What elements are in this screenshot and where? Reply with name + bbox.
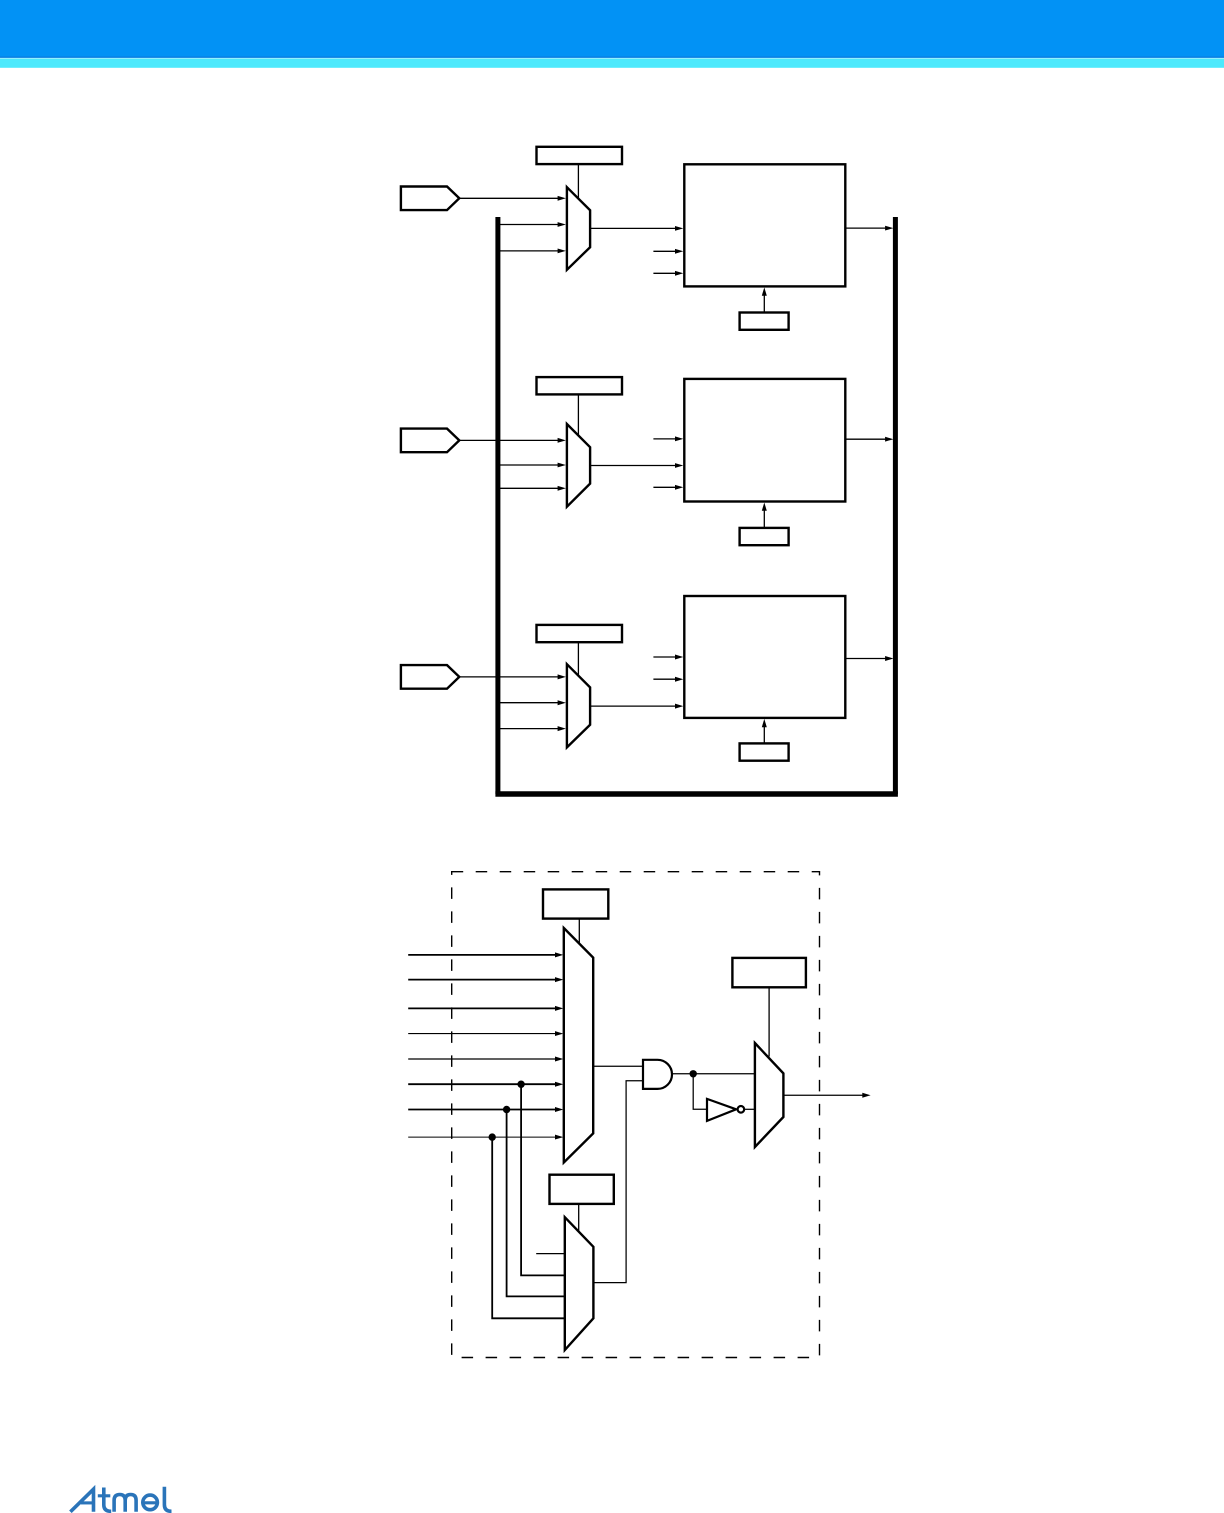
wire: register box R3 to mux M3 select xyxy=(577,642,579,676)
register box RC (above mux MC) xyxy=(732,958,806,987)
pin symbol P1 xyxy=(401,187,459,211)
control box C3 (below block B3) xyxy=(740,743,789,760)
wire: control input 2 into block B3 xyxy=(653,678,676,680)
wire: input line 8 into mux MA xyxy=(408,1136,557,1138)
data bus bottom horizontal bar xyxy=(495,791,898,796)
wire: pin P3 to mux M3 input xyxy=(459,676,559,678)
wire: block B2 output to data bus xyxy=(845,438,887,440)
wire: data bus to mux M2 input 3 xyxy=(498,487,560,489)
register box R1 (above mux M1) xyxy=(537,147,623,164)
mux M1 xyxy=(567,187,590,270)
wire: control box C3 up into block B3 xyxy=(763,725,765,743)
junction dot on AND output xyxy=(690,1070,697,1077)
wire: data bus to mux M3 input 2 xyxy=(498,702,560,704)
dashed boundary box of compare output unit xyxy=(452,872,820,1358)
control box C1 (below block B1) xyxy=(740,313,789,330)
wire: control box C2 up into block B2 xyxy=(763,509,765,528)
wire: control input 1 into block B2 xyxy=(653,438,676,440)
wire: data bus to mux M3 input 3 xyxy=(498,728,560,730)
wire: register box RB to mux MB select xyxy=(578,1204,580,1232)
wire: register box RC to mux MC select xyxy=(768,987,770,1056)
header banner dark edge xyxy=(0,56,1224,58)
wire: register box RA to mux MA select xyxy=(578,919,580,945)
inverter N1 bubble xyxy=(738,1106,745,1113)
wire: input line 7 into mux MA xyxy=(408,1109,557,1111)
junction dot on input line 6 xyxy=(517,1081,524,1088)
wire: inverter N1 output to mux MC input 2 xyxy=(744,1108,755,1110)
wire: control input 1 into block B1 xyxy=(653,250,676,252)
block B2 xyxy=(684,379,845,502)
mux M2 xyxy=(567,424,590,507)
mux MB (4-input) xyxy=(565,1217,594,1350)
Atmel logo xyxy=(70,1487,171,1512)
wire: mux MA output to AND gate G1 input 1 xyxy=(593,1065,643,1067)
wire: mux M1 output to block B1 xyxy=(590,227,677,229)
wire: tap from input line 7 down to mux MB input 3 xyxy=(507,1110,565,1297)
wire: block B3 output to data bus xyxy=(845,658,887,660)
wire: control box C1 up into block B1 xyxy=(763,294,765,313)
header cyan stripe xyxy=(0,58,1224,67)
wire: mux M3 output to block B3 xyxy=(590,705,677,707)
wire: AND gate G1 output to mux MC input 1 xyxy=(672,1073,755,1075)
wire: register box R2 to mux M2 select xyxy=(577,394,579,435)
block B3 xyxy=(684,596,845,718)
wire: input line 6 into mux MA xyxy=(408,1083,557,1085)
data bus left vertical bar xyxy=(495,217,500,794)
data bus right vertical bar xyxy=(893,217,898,794)
wire: tap from input line 8 down to mux MB input 4 xyxy=(492,1137,564,1318)
mux M3 xyxy=(567,664,590,747)
junction dot on input line 7 xyxy=(503,1106,510,1113)
AND gate G1 xyxy=(643,1060,672,1089)
wire: pin P1 to mux M1 input xyxy=(459,197,559,199)
wire: register box R1 to mux M1 select xyxy=(577,164,579,199)
wire: input line 5 into mux MA xyxy=(408,1058,557,1060)
wire: tap from input line 6 down to mux MB input 2 xyxy=(521,1084,565,1275)
wire: mux M2 output to block B2 xyxy=(590,465,677,467)
wire: control input 1 into block B3 xyxy=(653,656,676,658)
register box RA (above mux MA) xyxy=(543,889,608,918)
wire: stub input 1 into mux MB xyxy=(536,1253,564,1255)
wire: AND output down to inverter N1 xyxy=(693,1074,706,1110)
wire: pin P2 to mux M2 input xyxy=(459,439,559,441)
junction dot on input line 8 xyxy=(489,1133,496,1140)
wire: control input 2 into block B2 xyxy=(653,486,676,488)
mux MC (output mux) xyxy=(755,1043,784,1147)
inverter N1 xyxy=(707,1099,736,1121)
block B1 xyxy=(684,164,845,286)
register box R2 (above mux M2) xyxy=(537,377,623,394)
wire: input line 3 into mux MA xyxy=(408,1007,557,1009)
control box C2 (below block B2) xyxy=(740,528,789,545)
wire: input line 1 into mux MA xyxy=(408,954,557,956)
pin symbol P2 xyxy=(401,429,459,453)
wire: data bus to mux M2 input 2 xyxy=(498,464,560,466)
header blue banner xyxy=(0,0,1224,57)
wire: control input 2 into block B1 xyxy=(653,272,676,274)
wire: data bus to mux M1 input 2 xyxy=(498,224,560,226)
wire: input line 4 into mux MA xyxy=(408,1033,557,1035)
wire: mux MC output (to output pin) xyxy=(783,1094,863,1096)
wire: input line 2 into mux MA xyxy=(408,979,557,981)
wire: data bus to mux M1 input 3 xyxy=(498,250,560,252)
register box RB (above mux MB) xyxy=(550,1175,614,1204)
wire: mux MB output up to AND gate G1 input 2 xyxy=(593,1081,642,1283)
mux MA (8-input) xyxy=(564,928,593,1163)
wire: block B1 output to data bus xyxy=(845,227,887,229)
pin symbol P3 xyxy=(401,665,459,689)
register box R3 (above mux M3) xyxy=(537,625,623,642)
